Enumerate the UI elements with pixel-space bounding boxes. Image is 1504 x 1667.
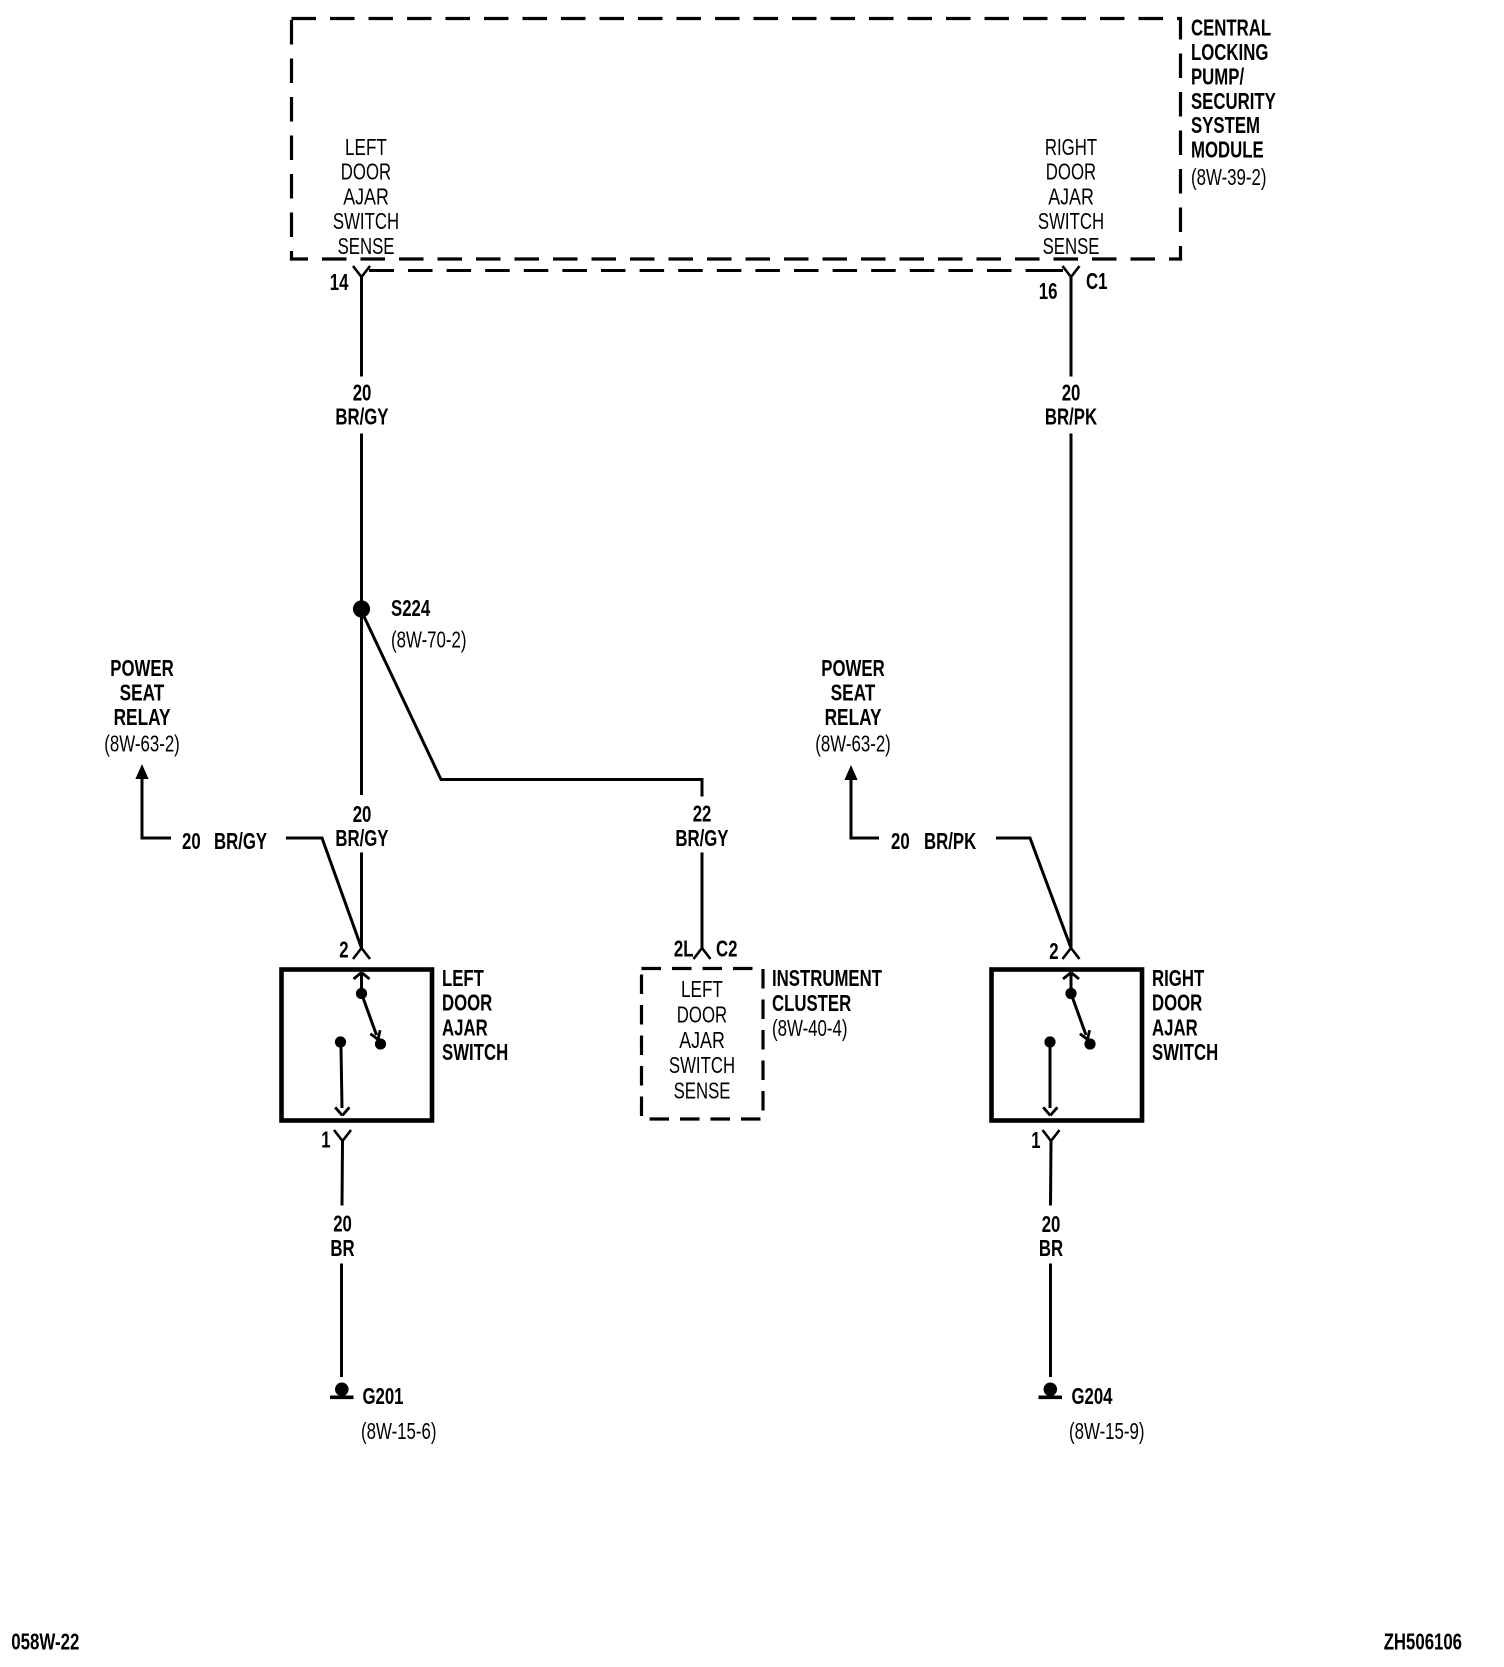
svg-text:(8W-40-4): (8W-40-4)	[772, 1015, 848, 1041]
svg-text:20: 20	[353, 801, 372, 827]
svg-text:22: 22	[693, 801, 712, 827]
svg-text:LOCKING: LOCKING	[1191, 39, 1268, 65]
power seat relay reference arrow (left)	[104, 655, 180, 838]
svg-text:(8W-63-2): (8W-63-2)	[104, 731, 180, 757]
svg-text:PUMP/: PUMP/	[1191, 63, 1244, 89]
svg-text:20: 20	[1042, 1211, 1061, 1237]
svg-text:BR/GY: BR/GY	[335, 825, 388, 851]
svg-text:RIGHT: RIGHT	[1045, 134, 1097, 160]
ground G201	[330, 1383, 404, 1410]
svg-text:SWITCH: SWITCH	[1038, 208, 1104, 234]
svg-text:20: 20	[891, 828, 910, 854]
svg-text:ZH506106: ZH506106	[1384, 1629, 1462, 1655]
pin 1 connector symbol (left switch)	[321, 1127, 351, 1153]
svg-text:DOOR: DOOR	[1152, 990, 1202, 1016]
svg-text:SYSTEM: SYSTEM	[1191, 112, 1260, 138]
svg-text:S224: S224	[391, 595, 430, 621]
svg-text:1: 1	[321, 1127, 330, 1153]
svg-text:AJAR: AJAR	[1048, 183, 1094, 209]
ground G201 reference label	[361, 1418, 437, 1444]
svg-text:BR: BR	[1039, 1235, 1063, 1261]
pin 1 connector symbol (right switch)	[1031, 1127, 1059, 1153]
svg-text:LEFT: LEFT	[345, 134, 387, 160]
svg-text:DOOR: DOOR	[1046, 159, 1096, 185]
svg-text:CENTRAL: CENTRAL	[1191, 15, 1271, 41]
svg-text:BR/GY: BR/GY	[214, 828, 267, 854]
svg-text:AJAR: AJAR	[679, 1027, 725, 1053]
splice S224 reference label	[391, 627, 467, 653]
sheet number 058W-22	[11, 1629, 79, 1655]
svg-text:(8W-63-2): (8W-63-2)	[815, 731, 891, 757]
svg-text:SENSE: SENSE	[674, 1078, 731, 1104]
switch: RIGHT DOOR AJAR SWITCH box	[992, 965, 1219, 1121]
svg-text:BR/GY: BR/GY	[335, 404, 388, 430]
pin 2 connector symbol (left switch)	[339, 937, 370, 963]
pin 16 connector symbol	[1039, 266, 1080, 304]
svg-text:DOOR: DOOR	[442, 990, 492, 1016]
svg-text:C1: C1	[1086, 268, 1107, 294]
svg-text:(8W-15-9): (8W-15-9)	[1069, 1418, 1145, 1444]
svg-text:RIGHT: RIGHT	[1152, 965, 1204, 991]
svg-text:20: 20	[1062, 380, 1081, 406]
ground G204	[1039, 1383, 1113, 1410]
svg-text:16: 16	[1039, 278, 1058, 304]
module box INSTRUMENT CLUSTER	[642, 965, 883, 1119]
left switch internal contacts and blade	[335, 973, 386, 1116]
svg-text:BR: BR	[330, 1235, 354, 1261]
svg-text:(8W-39-2): (8W-39-2)	[1191, 164, 1267, 190]
svg-text:AJAR: AJAR	[1152, 1014, 1198, 1040]
wire 20 BR/PK from pin 16 to right door ajar switch pin 2	[1045, 290, 1097, 948]
svg-text:BR/PK: BR/PK	[1045, 404, 1097, 430]
wire 20 BR/GY from pin 14 to splice S224	[335, 290, 388, 795]
svg-text:LEFT: LEFT	[442, 965, 484, 991]
svg-text:SWITCH: SWITCH	[669, 1052, 735, 1078]
svg-text:20: 20	[333, 1211, 352, 1237]
svg-text:20: 20	[353, 380, 372, 406]
svg-text:14: 14	[330, 269, 349, 295]
splice S224	[353, 595, 430, 621]
svg-text:(8W-15-6): (8W-15-6)	[361, 1418, 437, 1444]
svg-text:INSTRUMENT: INSTRUMENT	[772, 965, 882, 991]
svg-text:SEAT: SEAT	[831, 680, 876, 706]
svg-text:SEAT: SEAT	[120, 680, 165, 706]
svg-text:20: 20	[182, 828, 201, 854]
svg-text:SENSE: SENSE	[338, 233, 395, 259]
ground G204 reference label	[1069, 1418, 1145, 1444]
switch: LEFT DOOR AJAR SWITCH box	[282, 965, 509, 1121]
svg-text:1: 1	[1031, 1127, 1040, 1153]
svg-text:POWER: POWER	[821, 655, 885, 681]
wire 20 BR from left switch pin 1 to ground G201	[330, 1141, 354, 1377]
svg-text:RELAY: RELAY	[114, 704, 171, 730]
svg-text:AJAR: AJAR	[442, 1014, 488, 1040]
pin 2 connector symbol (right switch)	[1049, 938, 1079, 964]
connector C1 dashed line	[369, 268, 1107, 294]
svg-text:C2: C2	[716, 936, 737, 962]
svg-text:BR/GY: BR/GY	[675, 825, 728, 851]
right switch internal contacts and blade	[1043, 973, 1095, 1116]
svg-text:(8W-70-2): (8W-70-2)	[391, 627, 467, 653]
svg-text:POWER: POWER	[110, 655, 174, 681]
svg-text:SWITCH: SWITCH	[442, 1039, 508, 1065]
wire 20 BR/GY from S224 to left door ajar switch pin 2	[335, 801, 388, 948]
svg-text:G201: G201	[363, 1383, 404, 1409]
svg-text:RELAY: RELAY	[825, 704, 882, 730]
drawing id ZH506106	[1384, 1629, 1462, 1655]
wire 20 BR/PK branch to power seat relay (right)	[891, 828, 1071, 948]
pin 14 connector symbol	[330, 266, 370, 295]
pin 2L connector symbol (instrument cluster C2)	[674, 936, 738, 962]
wire 22 BR/GY from S224 to instrument cluster pin 2L	[364, 617, 729, 949]
module box CENTRAL LOCKING PUMP/SECURITY SYSTEM MODULE	[292, 15, 1277, 259]
svg-text:BR/PK: BR/PK	[924, 828, 976, 854]
svg-text:058W-22: 058W-22	[11, 1629, 79, 1655]
wire 20 BR/GY branch to power seat relay (left)	[182, 828, 362, 948]
svg-text:SWITCH: SWITCH	[1152, 1039, 1218, 1065]
svg-text:2L: 2L	[674, 936, 694, 962]
svg-text:SENSE: SENSE	[1043, 233, 1100, 259]
svg-text:MODULE: MODULE	[1191, 137, 1264, 163]
svg-text:SWITCH: SWITCH	[333, 208, 399, 234]
wire 20 BR from right switch pin 1 to ground G204	[1039, 1141, 1063, 1377]
power seat relay reference arrow (right)	[815, 655, 891, 838]
svg-text:LEFT: LEFT	[681, 976, 723, 1002]
svg-text:G204: G204	[1072, 1383, 1113, 1409]
svg-text:SECURITY: SECURITY	[1191, 88, 1276, 114]
svg-text:2: 2	[339, 937, 348, 963]
svg-text:AJAR: AJAR	[343, 183, 389, 209]
svg-text:DOOR: DOOR	[677, 1001, 727, 1027]
svg-text:DOOR: DOOR	[341, 159, 391, 185]
svg-text:CLUSTER: CLUSTER	[772, 990, 851, 1016]
svg-text:2: 2	[1049, 938, 1058, 964]
